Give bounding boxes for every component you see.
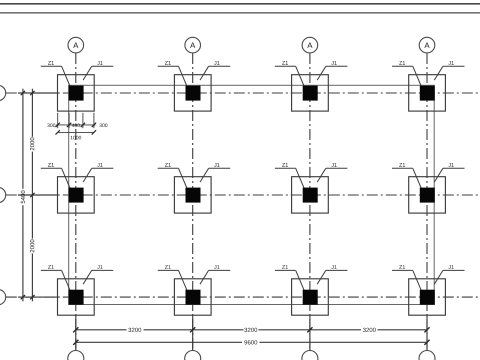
dimension text 5400	[21, 191, 25, 204]
dimension tick bottom bays	[424, 327, 429, 332]
column Z1 r1c3	[303, 86, 318, 101]
label J1 leader r1c4	[434, 66, 464, 80]
label J1 leader r1c1	[83, 66, 113, 80]
label J1 text r2c3	[331, 163, 336, 167]
column Z1 r2c3	[303, 188, 318, 203]
label Z1 leader r1c3	[275, 66, 305, 88]
grid centerline horizontal row 2	[6, 194, 480, 196]
label Z1 text r3c2	[165, 265, 171, 269]
label J1 text r1c4	[448, 61, 453, 65]
label Z1 text r3c1	[48, 265, 54, 269]
dimension text 9600	[244, 340, 257, 344]
label J1 text r2c1	[97, 163, 102, 167]
dimension tick left inner	[30, 193, 34, 197]
label J1 leader r2c4	[434, 168, 464, 182]
grid centerline horizontal row 3	[6, 296, 480, 298]
grid bubble bottom 3	[302, 351, 318, 360]
label Z1 leader r2c4	[392, 168, 422, 190]
grid bubble left row 3	[0, 289, 6, 304]
dimension tick left inner	[30, 295, 34, 299]
detail tick 300/400/300	[56, 123, 60, 127]
grid centerline vertical 4	[426, 53, 428, 351]
grid bubble bottom 4	[419, 351, 435, 360]
label J1 text r2c4	[448, 163, 453, 167]
label Z1 leader r3c3	[275, 270, 305, 292]
label Z1 leader r3c1	[41, 270, 71, 292]
dimension text 2000 lower	[30, 240, 34, 253]
label J1 leader r2c3	[317, 168, 347, 182]
dimension text 3200 bay1	[128, 328, 141, 332]
grid centerline vertical 1	[75, 53, 77, 351]
dimension text 3200 bay2	[244, 328, 257, 332]
label J1 leader r3c1	[83, 270, 113, 284]
label Z1 text r3c3	[282, 265, 288, 269]
label Z1 text r1c2	[165, 61, 171, 65]
column Z1 r1c2	[186, 86, 201, 101]
dimension line left row 3	[18, 296, 58, 298]
wall outline rectangle	[69, 85, 435, 304]
dimension tick left outer	[21, 91, 25, 95]
footing J1 outline r3c2	[174, 279, 211, 315]
grid bubble A top 1	[68, 37, 84, 53]
label Z1 text r2c1	[48, 163, 54, 167]
dimension line left row 2	[18, 194, 58, 196]
detail tick 1000 right	[92, 130, 96, 134]
label Z1 leader r1c4	[392, 66, 422, 88]
detail extension lines footing r1c1	[58, 113, 94, 128]
label J1 text r1c2	[214, 61, 219, 65]
label Z1 text r2c4	[399, 163, 405, 167]
label Z1 leader r2c1	[41, 168, 71, 190]
detail dimension line 300/400/300	[56, 124, 95, 126]
column Z1 r1c1	[69, 86, 84, 101]
label Z1 text r1c3	[282, 61, 288, 65]
label J1 leader r2c1	[83, 168, 113, 182]
dimension tick bottom bays	[190, 327, 195, 332]
footing J1 outline r3c3	[292, 279, 329, 315]
label Z1 leader r3c4	[392, 270, 422, 292]
column Z1 r3c1	[69, 290, 84, 305]
footing J1 outline r2c1	[58, 177, 95, 213]
label J1 leader r3c2	[200, 270, 230, 284]
detail text 1000	[71, 136, 82, 140]
detail text 400	[72, 124, 80, 128]
title block border line bottom	[0, 12, 480, 14]
grid bubble left row 2	[0, 187, 6, 202]
detail text 300 left	[47, 124, 55, 128]
extension line bottom grid 4	[426, 315, 428, 350]
grid bubble A top 4	[419, 37, 435, 53]
detail tick 300/400/300	[67, 123, 71, 127]
detail dimension line 1000	[58, 131, 94, 133]
footing J1 outline r3c4	[409, 279, 446, 315]
dimension line left outer (5400)	[22, 89, 24, 302]
detail tick 300/400/300	[92, 123, 96, 127]
dimension tick bottom bays	[73, 327, 78, 332]
label J1 leader r3c3	[317, 270, 347, 284]
label J1 leader r1c2	[200, 66, 230, 80]
grid centerline vertical 3	[309, 53, 311, 351]
dimension line left inner (2000/2000)	[31, 89, 33, 302]
extension line bottom grid 1	[75, 315, 77, 350]
dimension tick left outer	[21, 295, 25, 299]
column Z1 r2c2	[186, 188, 201, 203]
label Z1 leader r2c2	[158, 168, 188, 190]
grid bubble left row 1	[0, 85, 6, 100]
column Z1 r3c4	[420, 290, 435, 305]
footing J1 outline r1c2	[174, 75, 211, 111]
column Z1 r3c2	[186, 290, 201, 305]
title block border line top	[0, 3, 480, 5]
footing J1 outline r2c3	[292, 177, 329, 213]
dimension text 2000 upper	[30, 138, 34, 151]
dimension line bottom overall (9600)	[76, 341, 427, 343]
detail tick 1000 left	[56, 130, 60, 134]
label Z1 text r2c2	[165, 163, 171, 167]
label Z1 leader r3c2	[158, 270, 188, 292]
dimension text 3200 bay3	[363, 328, 376, 332]
column Z1 r1c4	[420, 86, 435, 101]
grid centerline horizontal row 1	[6, 92, 480, 94]
label J1 leader r2c2	[200, 168, 230, 182]
dimension tick bottom bays	[307, 327, 312, 332]
label Z1 text r3c4	[399, 265, 405, 269]
column Z1 r3c3	[303, 290, 318, 305]
dimension tick bottom overall right	[424, 340, 429, 345]
footing J1 outline r1c4	[409, 75, 446, 111]
grid bubble A top 3	[302, 37, 318, 53]
footing J1 outline r1c3	[292, 75, 329, 111]
dimension tick bottom overall left	[73, 340, 78, 345]
grid bubble bottom 2	[185, 351, 201, 360]
extension line bottom grid 3	[309, 315, 311, 350]
label J1 leader r3c4	[434, 270, 464, 284]
grid bubble bottom 1	[68, 351, 84, 360]
label J1 text r1c1	[97, 61, 102, 65]
footing J1 outline r2c4	[409, 177, 446, 213]
footing J1 outline r2c2	[174, 177, 211, 213]
label Z1 leader r2c3	[275, 168, 305, 190]
label J1 leader r1c3	[317, 66, 347, 80]
detail tick 300/400/300	[81, 123, 85, 127]
label J1 text r1c3	[331, 61, 336, 65]
grid bubble A top 2	[185, 37, 201, 53]
footing J1 outline r3c1	[58, 279, 95, 315]
extension line bottom grid 2	[192, 315, 194, 350]
detail text 300 right	[99, 124, 107, 128]
column Z1 r2c4	[420, 188, 435, 203]
label J1 text r3c2	[214, 265, 219, 269]
label J1 text r3c4	[448, 265, 453, 269]
grid centerline vertical 2	[192, 53, 194, 351]
dimension tick left inner	[30, 91, 34, 95]
label J1 text r3c3	[331, 265, 336, 269]
label Z1 text r2c3	[282, 163, 288, 167]
column Z1 r2c1	[69, 188, 84, 203]
label J1 text r2c2	[214, 163, 219, 167]
label Z1 text r1c1	[48, 61, 54, 65]
footing J1 outline r1c1	[58, 75, 95, 111]
label Z1 text r1c4	[399, 61, 405, 65]
dimension line bottom bays (3200)	[76, 329, 427, 331]
label Z1 leader r1c2	[158, 66, 188, 88]
dimension line left row 1	[18, 92, 58, 94]
label J1 text r3c1	[97, 265, 102, 269]
label Z1 leader r1c1	[41, 66, 71, 88]
